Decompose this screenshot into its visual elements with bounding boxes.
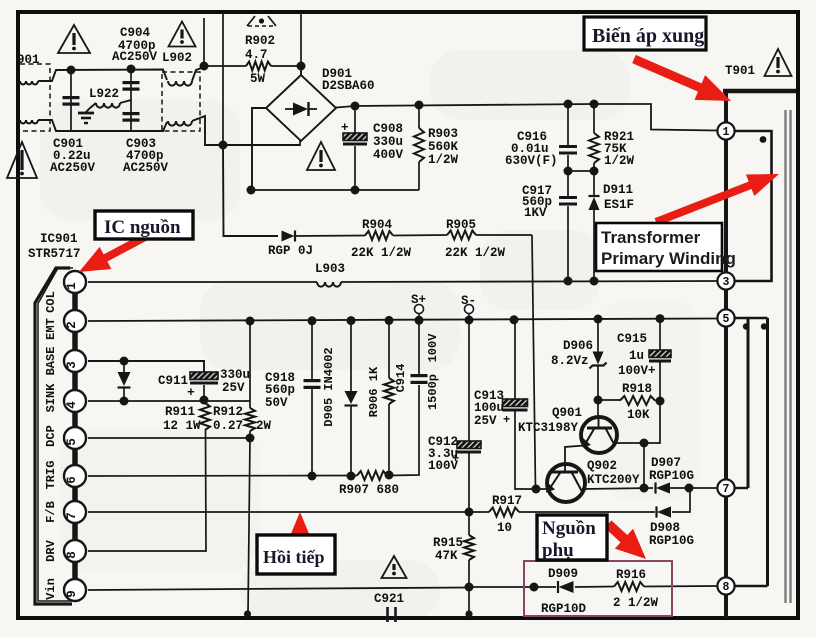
svg-text:D907: D907 bbox=[651, 456, 681, 470]
svg-text:R902: R902 bbox=[245, 34, 275, 48]
svg-text:R907 680: R907 680 bbox=[339, 483, 399, 497]
svg-text:D906: D906 bbox=[563, 339, 593, 353]
svg-text:5W: 5W bbox=[250, 72, 266, 86]
svg-text:IC901: IC901 bbox=[40, 232, 78, 246]
svg-text:R905: R905 bbox=[446, 218, 476, 232]
svg-text:12 1W: 12 1W bbox=[163, 419, 201, 433]
svg-text:R915: R915 bbox=[433, 536, 463, 550]
svg-text:R917: R917 bbox=[492, 494, 522, 508]
svg-text:STR5717: STR5717 bbox=[28, 247, 81, 261]
svg-text:7: 7 bbox=[65, 512, 79, 520]
svg-text:8.2Vz: 8.2Vz bbox=[551, 354, 589, 368]
svg-text:C904: C904 bbox=[120, 26, 151, 40]
svg-text:9: 9 bbox=[65, 590, 79, 598]
svg-text:5: 5 bbox=[65, 438, 79, 446]
svg-text:330u: 330u bbox=[220, 368, 250, 382]
svg-text:L903: L903 bbox=[315, 262, 345, 276]
svg-text:1500p: 1500p bbox=[426, 374, 440, 410]
svg-text:Primary Winding: Primary Winding bbox=[601, 249, 736, 268]
svg-text:1KV: 1KV bbox=[524, 206, 547, 220]
svg-text:560p: 560p bbox=[265, 383, 295, 397]
svg-text:COL: COL bbox=[44, 291, 58, 313]
svg-text:D2SBA60: D2SBA60 bbox=[322, 79, 375, 93]
svg-text:560K: 560K bbox=[428, 140, 459, 154]
svg-text:22K 1/2W: 22K 1/2W bbox=[351, 246, 412, 260]
svg-text:100V: 100V bbox=[426, 333, 440, 363]
svg-text:1/2W: 1/2W bbox=[604, 154, 635, 168]
svg-text:RGP10G: RGP10G bbox=[649, 469, 694, 483]
svg-text:S+: S+ bbox=[411, 293, 426, 307]
svg-text:+: + bbox=[187, 385, 195, 400]
svg-text:AC250V: AC250V bbox=[123, 161, 169, 175]
svg-text:4: 4 bbox=[65, 401, 79, 409]
svg-text:Vin: Vin bbox=[44, 578, 58, 600]
svg-text:0.27: 0.27 bbox=[213, 419, 243, 433]
svg-text:C908: C908 bbox=[373, 122, 403, 136]
svg-text:Q901: Q901 bbox=[552, 406, 582, 420]
svg-text:100u: 100u bbox=[474, 401, 504, 415]
svg-text:3: 3 bbox=[65, 361, 79, 369]
svg-text:BASE: BASE bbox=[44, 347, 58, 376]
svg-text:R903: R903 bbox=[428, 127, 458, 141]
svg-text:SINK: SINK bbox=[44, 383, 58, 413]
svg-text:D908: D908 bbox=[650, 521, 680, 535]
svg-text:50V: 50V bbox=[265, 396, 288, 410]
svg-text:7: 7 bbox=[723, 483, 730, 496]
svg-text:8: 8 bbox=[65, 551, 79, 559]
svg-text:25V: 25V bbox=[474, 414, 497, 428]
svg-text:47K: 47K bbox=[435, 549, 458, 563]
svg-text:100V+: 100V+ bbox=[618, 364, 656, 378]
svg-text:Hồi tiếp: Hồi tiếp bbox=[263, 547, 325, 567]
svg-text:phụ: phụ bbox=[542, 540, 574, 561]
svg-text:400V: 400V bbox=[373, 148, 404, 162]
svg-text:C911: C911 bbox=[158, 374, 188, 388]
svg-text:1: 1 bbox=[65, 282, 79, 290]
svg-text:DCP: DCP bbox=[44, 425, 58, 447]
svg-text:IC nguồn: IC nguồn bbox=[104, 217, 181, 238]
svg-text:RGP10G: RGP10G bbox=[649, 534, 694, 548]
svg-text:D909: D909 bbox=[548, 567, 578, 581]
svg-text:DRV: DRV bbox=[44, 539, 58, 561]
svg-text:2 1/2W: 2 1/2W bbox=[613, 596, 659, 610]
svg-text:R916: R916 bbox=[616, 568, 646, 582]
svg-text:R911: R911 bbox=[165, 405, 195, 419]
svg-text:KTC200Y: KTC200Y bbox=[587, 473, 640, 487]
svg-text:R904: R904 bbox=[362, 218, 393, 232]
svg-text:C921: C921 bbox=[374, 592, 404, 606]
svg-text:+: + bbox=[341, 121, 349, 135]
svg-text:100V: 100V bbox=[428, 459, 459, 473]
svg-text:RGP 0J: RGP 0J bbox=[268, 244, 313, 258]
svg-text:25V: 25V bbox=[222, 381, 245, 395]
svg-text:22K 1/2W: 22K 1/2W bbox=[445, 246, 506, 260]
svg-text:ES1F: ES1F bbox=[604, 198, 634, 212]
svg-text:10: 10 bbox=[497, 521, 512, 535]
svg-text:10K: 10K bbox=[627, 408, 650, 422]
svg-text:3: 3 bbox=[723, 276, 730, 289]
svg-text:901: 901 bbox=[17, 53, 40, 67]
svg-text:Nguồn: Nguồn bbox=[542, 518, 596, 539]
svg-text:1u: 1u bbox=[629, 349, 644, 363]
svg-text:630V(F): 630V(F) bbox=[505, 154, 558, 168]
svg-text:L922: L922 bbox=[89, 87, 119, 101]
svg-text:2: 2 bbox=[65, 321, 79, 329]
svg-text:F/B: F/B bbox=[44, 501, 58, 523]
svg-text:C915: C915 bbox=[617, 332, 647, 346]
svg-text:R918: R918 bbox=[622, 382, 652, 396]
svg-text:S-: S- bbox=[461, 294, 476, 308]
svg-text:AC250V: AC250V bbox=[50, 161, 96, 175]
svg-text:1/2W: 1/2W bbox=[428, 153, 459, 167]
svg-text:C914: C914 bbox=[394, 364, 408, 393]
svg-text:Biến áp xung: Biến áp xung bbox=[592, 25, 704, 47]
svg-text:TRIG: TRIG bbox=[44, 461, 58, 490]
svg-text:6: 6 bbox=[65, 476, 79, 484]
svg-text:AC250V: AC250V bbox=[112, 50, 158, 64]
svg-text:8: 8 bbox=[723, 581, 730, 594]
svg-text:Q902: Q902 bbox=[587, 459, 617, 473]
svg-text:1: 1 bbox=[723, 126, 730, 139]
svg-text:2W: 2W bbox=[256, 419, 272, 433]
svg-text:330u: 330u bbox=[373, 135, 403, 149]
svg-text:D905 IN4002: D905 IN4002 bbox=[322, 347, 336, 426]
svg-text:R912: R912 bbox=[213, 405, 243, 419]
svg-text:R906 1K: R906 1K bbox=[367, 366, 381, 417]
svg-text:EMT: EMT bbox=[44, 318, 58, 340]
svg-text:5: 5 bbox=[723, 313, 730, 326]
svg-text:L902: L902 bbox=[162, 51, 192, 65]
svg-text:KTC3198Y: KTC3198Y bbox=[518, 421, 579, 435]
svg-text:Transformer: Transformer bbox=[601, 228, 701, 247]
svg-text:D911: D911 bbox=[603, 183, 633, 197]
svg-text:T901: T901 bbox=[725, 64, 755, 78]
svg-text:4.7: 4.7 bbox=[245, 48, 268, 62]
svg-text:+: + bbox=[503, 413, 510, 427]
svg-text:RGP10D: RGP10D bbox=[541, 602, 587, 616]
